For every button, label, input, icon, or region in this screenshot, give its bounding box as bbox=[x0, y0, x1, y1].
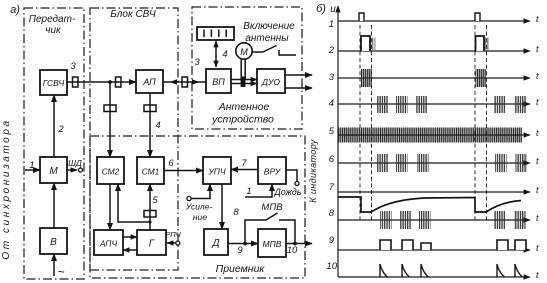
wire СМ2 down to АПЧ bbox=[109, 184, 111, 230]
svg-text:АПЧ: АПЧ bbox=[99, 239, 118, 249]
vertical label От синхронизатора bbox=[1, 118, 12, 259]
svg-text:4: 4 bbox=[155, 120, 160, 131]
svg-text:б): б) bbox=[316, 3, 326, 15]
dash-dot enclosure Антенное устройство (antenna unit) bbox=[192, 7, 302, 129]
svg-text:3: 3 bbox=[329, 72, 335, 83]
svg-text:М: М bbox=[49, 166, 58, 177]
wire junction down to СМ2 bbox=[109, 82, 111, 157]
block М modulator bbox=[40, 157, 67, 183]
flange connector on СМ1 feed bbox=[144, 105, 156, 112]
svg-text:7: 7 bbox=[329, 182, 335, 193]
row 3 axis t bbox=[329, 71, 539, 83]
svg-text:2: 2 bbox=[328, 45, 335, 56]
block АП bbox=[136, 70, 163, 93]
waveguide flange connector before АП bbox=[116, 77, 122, 87]
motor М circle bbox=[236, 43, 252, 59]
wire Г to АПЧ bbox=[123, 249, 137, 251]
wire ВРУ output to jack bbox=[286, 170, 299, 186]
block Г local oscillator bbox=[137, 230, 166, 255]
row 8 gated bursts bbox=[380, 211, 526, 229]
svg-text:ДУО: ДУО bbox=[261, 77, 280, 87]
svg-text:Включение: Включение bbox=[243, 21, 295, 32]
svg-text:9: 9 bbox=[329, 235, 335, 246]
svg-text:10: 10 bbox=[326, 261, 337, 272]
svg-text:8: 8 bbox=[329, 208, 335, 219]
block ВРУ bbox=[258, 157, 286, 184]
timing guide dashed line pulse2 end bbox=[486, 25, 488, 221]
svg-text:ВП: ВП bbox=[212, 77, 225, 87]
wire ВП to ДУО double mechanical link bbox=[231, 80, 257, 84]
svg-text:Приемник: Приемник bbox=[216, 263, 266, 275]
flange connector on Г line bbox=[144, 211, 156, 218]
svg-text:6: 6 bbox=[168, 158, 174, 169]
svg-text:3: 3 bbox=[70, 61, 76, 72]
block СМ1 mixer1 bbox=[137, 157, 164, 184]
row 8 axis t bbox=[329, 208, 539, 223]
svg-text:1: 1 bbox=[246, 186, 251, 197]
wire АП to ВП bidirectional bbox=[163, 79, 206, 84]
figure label a) bbox=[10, 4, 20, 16]
row 9 video pulses bbox=[380, 240, 526, 250]
svg-text:4: 4 bbox=[222, 49, 227, 60]
row 3 RF bursts bbox=[361, 69, 487, 87]
wire АПЧ to Г bbox=[123, 236, 137, 238]
svg-text:10: 10 bbox=[287, 245, 298, 256]
svg-text:Усиле-: Усиле- bbox=[185, 202, 213, 212]
block ДУО bbox=[257, 69, 285, 93]
svg-text:1: 1 bbox=[329, 19, 334, 30]
svg-text:~: ~ bbox=[57, 265, 64, 279]
dash-dot enclosure Приемник (receiver unit) bbox=[90, 136, 305, 278]
wire ВРУ to УПЧ label 7 bbox=[231, 158, 258, 170]
row 6 IF bursts bbox=[377, 154, 528, 172]
switch включения антенны bbox=[252, 46, 296, 56]
wire Дождь input 1 into ВРУ bbox=[245, 184, 302, 197]
svg-text:МПВ: МПВ bbox=[261, 202, 283, 213]
voltage axis u bbox=[330, 4, 338, 277]
block УПЧ bbox=[203, 157, 231, 184]
mechanical shaft from motor bbox=[241, 59, 246, 87]
row 4 echo bursts bbox=[377, 96, 527, 113]
svg-text:5: 5 bbox=[329, 126, 335, 137]
row 10 differentiated spikes bbox=[380, 264, 523, 277]
svg-text:7: 7 bbox=[241, 158, 247, 169]
svg-text:СМ1: СМ1 bbox=[142, 167, 160, 177]
svg-text:ВРУ: ВРУ bbox=[264, 167, 282, 177]
svg-text:2: 2 bbox=[57, 124, 64, 135]
svg-text:От синхронизатора: От синхронизатора bbox=[1, 118, 12, 259]
timing guide dashed line pulse1 end bbox=[371, 25, 373, 221]
row 9 axis t bbox=[329, 235, 539, 253]
svg-text:Дождь: Дождь bbox=[273, 187, 301, 197]
svg-text:РПЧ: РПЧ bbox=[165, 230, 181, 239]
wire antenna to ВП bidirectional label 4 bbox=[216, 41, 228, 67]
svg-text:УПЧ: УПЧ bbox=[207, 167, 226, 177]
wire Усиление input into УПЧ bbox=[185, 184, 213, 222]
svg-text:Антенное: Антенное bbox=[218, 101, 270, 113]
svg-text:МПВ: МПВ bbox=[263, 239, 282, 249]
flange connector on СМ2 feed bbox=[104, 105, 116, 112]
svg-text:а): а) bbox=[10, 4, 20, 16]
svg-text:АП: АП bbox=[142, 77, 156, 87]
row 4 axis t bbox=[329, 97, 539, 109]
svg-text:Передат-: Передат- bbox=[29, 14, 76, 25]
timing guide dashed line pulse2 start bbox=[474, 25, 476, 221]
figure label b) bbox=[316, 3, 326, 15]
svg-text:5: 5 bbox=[152, 195, 158, 206]
svg-text:ние: ние bbox=[193, 212, 207, 222]
dash-dot enclosure Блок СВЧ (microwave unit) bbox=[90, 8, 178, 270]
row 1 axis t bbox=[329, 14, 539, 30]
row 2 modulator pulses bbox=[361, 36, 490, 51]
wire В to М bbox=[53, 183, 55, 228]
row 10 axis t bbox=[326, 261, 539, 280]
wire МПВ output 10 to indicator bbox=[286, 244, 312, 257]
wire АП down to СМ1 label 4 bbox=[150, 93, 161, 157]
row 7 ВРУ gain curve bbox=[338, 197, 521, 212]
block ГСВЧ U1 bbox=[40, 70, 67, 95]
wire ДУО output lower bbox=[285, 87, 312, 89]
block МПВ bbox=[258, 229, 286, 257]
wire РПЧ input into Г bbox=[165, 230, 181, 245]
svg-text:чик: чик bbox=[45, 25, 62, 36]
svg-text:u: u bbox=[330, 4, 336, 15]
svg-text:антенны: антенны bbox=[245, 33, 289, 44]
wire Г up to СМ1 label 5 bbox=[150, 184, 158, 230]
node junction before МПВ bbox=[243, 242, 247, 246]
block АПЧ bbox=[94, 230, 123, 255]
svg-text:Блок СВЧ: Блок СВЧ bbox=[110, 9, 156, 20]
block СМ2 mixer2 bbox=[97, 157, 124, 184]
node junction after МПВ bbox=[293, 242, 297, 246]
label Включение антенны bbox=[243, 21, 295, 44]
row 5 axis t bbox=[329, 126, 539, 143]
bypass switch МПВ bbox=[245, 202, 295, 244]
wire waveguide ГСВЧ to АП bbox=[67, 81, 136, 83]
svg-text:М: М bbox=[240, 47, 248, 57]
vertical label К индикатору bbox=[308, 139, 318, 203]
row 1 trigger pulses bbox=[359, 13, 480, 21]
svg-text:В: В bbox=[50, 237, 57, 248]
svg-text:1: 1 bbox=[29, 160, 34, 171]
svg-text:3: 3 bbox=[194, 57, 200, 68]
row 2 axis t bbox=[328, 44, 539, 56]
wire СМ1 to УПЧ label 6 bbox=[164, 158, 203, 171]
antenna feed box with slots bbox=[197, 27, 234, 40]
svg-text:8: 8 bbox=[233, 207, 239, 218]
wire ШД output of М with jack bbox=[67, 158, 83, 172]
svg-text:6: 6 bbox=[329, 154, 335, 165]
svg-text:СМ2: СМ2 bbox=[102, 167, 120, 177]
svg-text:9: 9 bbox=[237, 245, 243, 256]
svg-text:4: 4 bbox=[329, 98, 334, 109]
svg-text:К индикатору: К индикатору bbox=[308, 139, 318, 203]
wire mains input into В bbox=[54, 254, 65, 279]
svg-text:ГСВЧ: ГСВЧ bbox=[43, 78, 65, 88]
svg-text:ШД: ШД bbox=[68, 158, 82, 168]
block В rectifier bbox=[40, 228, 67, 254]
wire М to ГСВЧ label 2 bbox=[54, 95, 64, 157]
row 6 axis t bbox=[329, 154, 539, 166]
waveguide flange connector 3 between АП and ВП bbox=[182, 57, 200, 87]
row 7 axis t bbox=[329, 182, 539, 195]
dash-dot enclosure Передатчик (transmitter unit) bbox=[24, 8, 84, 279]
timing guide dashed line pulse1 start bbox=[359, 25, 361, 221]
wire УПЧ to Д label 8 bbox=[222, 184, 239, 229]
block Д detector bbox=[204, 229, 228, 255]
wire Г branch to СМ2 bbox=[118, 184, 152, 224]
waveguide flange connector 3 at ГСВЧ bbox=[70, 61, 78, 87]
wire Д to МПВ label 9 bbox=[228, 244, 258, 257]
svg-text:устройство: устройство bbox=[211, 114, 274, 126]
svg-text:Д: Д bbox=[211, 238, 219, 249]
wire ДУО output upper bbox=[285, 74, 312, 76]
block ВП bbox=[206, 69, 231, 93]
node junction on waveguide bbox=[108, 80, 112, 84]
wire sync input 1 into М bbox=[25, 160, 40, 171]
